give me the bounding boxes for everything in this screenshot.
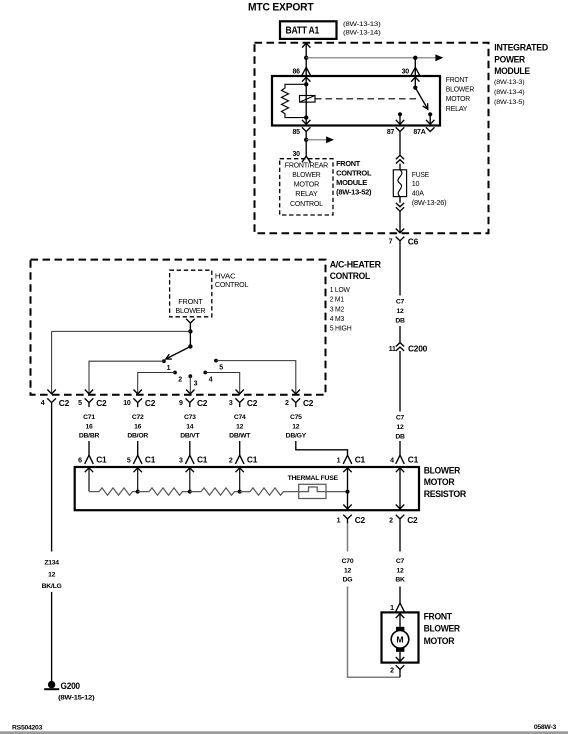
svg-text:5: 5 (78, 400, 82, 407)
svg-text:7: 7 (389, 239, 393, 246)
switch arm relay (415, 88, 428, 110)
wire common to ground leg (horizontal) (52, 330, 191, 332)
arrow entry pin1 (343, 468, 351, 472)
svg-text:12: 12 (344, 567, 352, 574)
dashed actuation link (315, 98, 419, 100)
wire switch common (189, 328, 191, 347)
svg-text:MTC EXPORT: MTC EXPORT (248, 2, 314, 14)
wire position 4 to 3 C2 (205, 373, 239, 394)
pin 4 C2 connector (41, 398, 70, 408)
ground G200 (44, 681, 59, 689)
svg-text:12: 12 (396, 424, 404, 431)
svg-text:C72: C72 (132, 414, 144, 421)
pin 5 C2 connector (78, 398, 107, 408)
svg-text:(8W-15-12): (8W-15-12) (58, 695, 94, 702)
pin 2 C2 connector (resistor out) (389, 515, 418, 525)
arrow motor pin 2 exit (396, 657, 404, 661)
svg-text:BK: BK (395, 577, 405, 584)
svg-text:C1: C1 (355, 455, 366, 465)
svg-text:MODULE: MODULE (494, 66, 530, 76)
svg-text:C70: C70 (342, 558, 354, 565)
arrow entry (134, 468, 142, 472)
resistor relay suppression (282, 84, 307, 117)
svg-text:12: 12 (396, 567, 404, 574)
relay U1 FRONT BLOWER MOTOR RELAY box (272, 76, 440, 126)
wire to pin 4 C1 (399, 441, 401, 455)
svg-text:DG: DG (343, 577, 353, 584)
arrow entry (186, 468, 194, 472)
svg-text:CONTROL: CONTROL (215, 282, 249, 289)
wire pin 4 C1 through resistor (399, 467, 401, 511)
arrow ground leg exits box (47, 390, 55, 394)
svg-text:(8W-13-5): (8W-13-5) (494, 99, 524, 106)
pin 10 C2 connector (123, 398, 155, 408)
pin 2 C2 connector (285, 398, 314, 408)
svg-text:FRONT: FRONT (424, 612, 453, 622)
svg-text:M: M (396, 635, 403, 645)
wire contact 87A to pin (429, 114, 431, 125)
svg-text:30: 30 (402, 68, 410, 75)
wire C70 upper segment (grey) (347, 523, 349, 551)
wire label C70 12 DG (342, 558, 354, 584)
svg-text:C2: C2 (145, 398, 156, 408)
arrow position 1 wire exits (85, 390, 93, 394)
wire contact 87 to pin (399, 114, 401, 125)
pin 3 C1 connector (179, 455, 208, 465)
battery feed BATT A1 (280, 21, 337, 39)
svg-text:2: 2 (389, 517, 393, 524)
svg-text:CONTROL: CONTROL (336, 171, 372, 178)
svg-text:POWER: POWER (494, 54, 525, 64)
svg-text:MOTOR: MOTOR (424, 636, 456, 646)
svg-text:C75: C75 (290, 414, 302, 421)
svg-text:2: 2 (285, 400, 289, 407)
svg-text:30: 30 (293, 151, 301, 158)
node position 5 (214, 359, 218, 363)
svg-text:(8W-13-26): (8W-13-26) (412, 198, 447, 207)
relay coil symbol (300, 96, 316, 103)
svg-text:CONTROL: CONTROL (290, 201, 323, 208)
arrow position 5 wire exits (292, 390, 300, 394)
svg-text:FRONT: FRONT (178, 299, 203, 306)
wire below fuse (399, 197, 401, 203)
motor brush bottom (396, 648, 404, 652)
svg-text:BATT A1: BATT A1 (286, 25, 320, 36)
svg-text:C2: C2 (303, 398, 314, 408)
svg-text:1: 1 (390, 605, 394, 612)
svg-text:85: 85 (293, 129, 301, 136)
connector double chevron below fuse (396, 203, 404, 211)
arrow pin 87 exit (396, 120, 404, 124)
node bus to relay pin 30 (413, 56, 417, 60)
wire pin 87 to fuse (399, 136, 401, 155)
svg-text:BLOWER: BLOWER (446, 85, 474, 94)
svg-text:5: 5 (127, 457, 131, 464)
wire pin 85 to front control module (305, 136, 307, 157)
resistor R4 (240, 488, 299, 495)
front control module dashed box (280, 159, 333, 215)
node R1-R2 (136, 490, 140, 494)
svg-text:C71: C71 (83, 414, 95, 421)
arrow pin 85 exit (302, 120, 310, 124)
svg-text:FRONT/REAR: FRONT/REAR (285, 163, 328, 170)
pin 30 chevron (411, 67, 420, 75)
wire position 1 to 5 C2 (89, 361, 164, 393)
node position 2 (173, 371, 177, 375)
svg-text:G200: G200 (61, 681, 81, 691)
arrow bus continues right (435, 54, 443, 61)
svg-text:FRONT: FRONT (446, 75, 469, 84)
arrow exit pin1 (343, 505, 351, 509)
svg-text:12: 12 (236, 423, 244, 430)
node switch common junction (188, 329, 192, 333)
wire label C7 12 DB upper (395, 299, 405, 325)
wire down to relay pin 30 (414, 58, 416, 76)
wire C70 lower segment to motor pin 2 (grey) (348, 587, 401, 678)
node position 4 (203, 371, 207, 375)
wire into fuse (399, 164, 401, 170)
svg-text:C7: C7 (396, 415, 405, 422)
svg-text:C1: C1 (247, 455, 258, 465)
wire position 5 to 2 C2 (216, 361, 296, 394)
pin 4 C1 chevron (396, 455, 405, 464)
a/c-heater control label (330, 260, 382, 281)
svg-text:DB/VT: DB/VT (180, 433, 200, 440)
node switch pivot (413, 86, 417, 90)
wire label C7 12 DB lower (395, 415, 405, 441)
svg-text:2: 2 (229, 457, 233, 464)
pin 87A chevron (stub) (426, 127, 435, 131)
pin 85 chevron (302, 127, 311, 136)
node contact 87A (428, 112, 432, 116)
arrow exit pin4 (396, 505, 404, 509)
svg-text:(8W-13-14): (8W-13-14) (343, 30, 381, 37)
svg-text:10: 10 (123, 400, 131, 407)
pin 87 chevron (396, 127, 405, 136)
pin 3 C2 connector (229, 398, 258, 408)
svg-text:14: 14 (186, 423, 194, 430)
svg-text:1: 1 (167, 365, 171, 372)
fuse element curve (398, 170, 402, 197)
wire label C71 16 DB/BR (79, 414, 100, 439)
svg-text:HVAC: HVAC (215, 274, 236, 281)
wire motor internal top (399, 612, 401, 626)
svg-text:C2: C2 (247, 398, 258, 408)
svg-text:87: 87 (387, 129, 395, 136)
wire fuse to pin 1 (326, 491, 348, 493)
arrow entry (85, 468, 93, 472)
svg-text:C2: C2 (407, 515, 418, 525)
svg-text:C1: C1 (96, 455, 107, 465)
svg-text:3: 3 (194, 380, 198, 387)
wire (88, 441, 90, 455)
svg-text:C200: C200 (408, 343, 428, 353)
svg-text:RELAY: RELAY (295, 191, 318, 198)
switch common chevron (186, 319, 195, 328)
svg-text:C74: C74 (234, 414, 246, 421)
svg-text:86: 86 (293, 68, 301, 75)
svg-text:C2: C2 (96, 398, 107, 408)
connector C6 chevron (396, 237, 405, 246)
motor pin 1 chevron (396, 603, 405, 612)
svg-text:(8W-13-13): (8W-13-13) (343, 21, 381, 28)
resistor R2 (138, 488, 190, 495)
node position 1 (162, 359, 166, 363)
svg-text:BLOWER: BLOWER (424, 466, 461, 476)
integrated power module boundary (255, 43, 489, 234)
arrow pin 86 entry (302, 77, 310, 81)
pin 30 FCM chevron (302, 156, 311, 162)
svg-text:CONTROL: CONTROL (330, 271, 371, 281)
front/rear blower motor relay control label (285, 163, 328, 208)
wire label C75 12 DB/GY (286, 414, 307, 439)
svg-text:12: 12 (48, 571, 56, 578)
svg-text:5: 5 (219, 364, 223, 371)
svg-text:5 HIGH: 5 HIGH (330, 326, 352, 333)
wire C6 down (C7 12 DB) (399, 245, 401, 295)
wire to C200 (399, 326, 401, 343)
wire (137, 441, 139, 455)
svg-text:(8W-13-3): (8W-13-3) (494, 79, 524, 86)
svg-text:RELAY: RELAY (446, 104, 468, 113)
wire (239, 441, 241, 455)
pin 1 C1 connector (337, 455, 366, 465)
wire C7 BK to motor pin 1 (399, 587, 401, 604)
svg-text:FRONT: FRONT (336, 161, 361, 168)
svg-text:C2: C2 (197, 398, 208, 408)
wire label C72 16 DB/OR (127, 414, 148, 439)
value label (8W-13-13) (8W-13-14) (343, 21, 381, 37)
wire resistor feed (88, 467, 90, 491)
switch position legend (330, 287, 352, 333)
svg-text:C2: C2 (355, 515, 366, 525)
svg-text:4: 4 (390, 457, 394, 464)
svg-text:(8W-13-4): (8W-13-4) (494, 89, 524, 96)
svg-text:MOTOR: MOTOR (446, 94, 470, 103)
svg-text:2: 2 (390, 667, 394, 674)
wire label C74 12 DB/WT (229, 414, 251, 439)
motor pin 2 chevron (396, 665, 405, 674)
wire ground leg down (51, 331, 53, 393)
node R2-R3 (188, 490, 192, 494)
arrow into battery feed (302, 43, 310, 47)
svg-text:C7: C7 (396, 299, 405, 306)
svg-text:16: 16 (134, 423, 142, 430)
wire resistor feed (239, 467, 241, 491)
resistor R1 (89, 488, 138, 495)
svg-text:RESISTOR: RESISTOR (424, 489, 467, 499)
arrow entry (236, 468, 244, 472)
svg-text:3: 3 (229, 400, 233, 407)
svg-text:DB/OR: DB/OR (127, 433, 148, 440)
front blower motor label (424, 612, 461, 646)
svg-text:DB/WT: DB/WT (229, 433, 251, 440)
pin 9 C2 connector (179, 398, 208, 408)
svg-text:C6: C6 (408, 236, 419, 246)
svg-text:87A: 87A (413, 129, 425, 136)
svg-text:DB: DB (395, 317, 405, 324)
wire motor internal bottom (399, 652, 401, 663)
svg-text:C1: C1 (145, 455, 156, 465)
blower motor resistor label (424, 466, 467, 499)
svg-text:A/C-HEATER: A/C-HEATER (330, 260, 382, 270)
pin 5 C1 connector (127, 455, 156, 465)
svg-text:C73: C73 (184, 414, 196, 421)
svg-text:RS504203: RS504203 (12, 725, 43, 732)
wire Z134 lower segment to ground (51, 592, 53, 682)
relay label (446, 75, 474, 113)
wire label C73 14 DB/VT (180, 414, 200, 439)
wire pin 1 C1 through resistor (347, 467, 349, 511)
connector double chevron above fuse (396, 155, 404, 163)
svg-text:11: 11 (389, 346, 396, 353)
arrow exit IPM (396, 229, 404, 233)
svg-text:BLOWER: BLOWER (292, 172, 320, 179)
front blower switch label (175, 299, 205, 315)
svg-text:FUSE: FUSE (412, 170, 430, 179)
svg-text:6: 6 (78, 457, 82, 464)
front control module label (336, 161, 372, 196)
node switch pivot (188, 344, 192, 348)
svg-text:4: 4 (209, 377, 213, 384)
svg-text:1: 1 (337, 517, 341, 524)
wire branch arrow right (306, 139, 327, 141)
arrow motor pin 1 entry (396, 614, 404, 618)
wire position 2 to 10 C2 (138, 373, 175, 394)
arrow branch continues (326, 136, 334, 143)
svg-text:BLOWER: BLOWER (175, 308, 205, 315)
arrow pin 30 entry (411, 77, 419, 81)
svg-text:THERMAL FUSE: THERMAL FUSE (288, 475, 339, 482)
hvac control dashed box (170, 270, 212, 317)
svg-text:DB/GY: DB/GY (286, 433, 307, 440)
svg-text:10: 10 (412, 179, 420, 188)
svg-text:9: 9 (179, 400, 183, 407)
motor brush top (396, 627, 404, 631)
svg-text:INTEGRATED: INTEGRATED (494, 43, 548, 53)
svg-text:4 M3: 4 M3 (330, 316, 345, 323)
blower motor resistor box (75, 467, 419, 510)
integrated power module label (494, 43, 549, 106)
svg-text:40A: 40A (412, 188, 424, 197)
arrow position 4 wire exits (236, 390, 244, 394)
arrow position 3 wire exits (186, 390, 194, 394)
svg-text:C1: C1 (408, 455, 419, 465)
svg-text:2: 2 (178, 377, 182, 384)
svg-text:2 M1: 2 M1 (330, 297, 344, 304)
svg-text:1 LOW: 1 LOW (330, 287, 351, 294)
svg-text:12: 12 (396, 308, 404, 315)
node coil bottom (304, 115, 308, 119)
svg-text:Z134: Z134 (44, 560, 59, 567)
svg-text:C1: C1 (197, 455, 208, 465)
svg-text:MODULE: MODULE (336, 180, 368, 187)
resistor R3 (190, 488, 240, 495)
node position 3 (188, 374, 192, 378)
svg-text:DB: DB (395, 433, 405, 440)
pin 86 chevron (302, 67, 311, 75)
wire resistor feed (189, 467, 191, 491)
node battery bus junction (304, 56, 308, 60)
wire (189, 441, 191, 455)
wire BATT A1 down to relay pin 86 (305, 43, 307, 76)
connector C200 double chevron (396, 343, 404, 351)
node relay control branch (304, 138, 308, 142)
svg-text:C7: C7 (396, 558, 405, 565)
wire Z134 upper segment (51, 407, 53, 551)
switch arm blower speed (166, 347, 191, 360)
bottom rule (0, 731, 568, 734)
svg-text:C2: C2 (59, 398, 70, 408)
node R3-R4 (238, 490, 242, 494)
wire motor pin 2 stub (399, 674, 401, 677)
a/c-heater control boundary (31, 260, 326, 395)
svg-text:16: 16 (85, 423, 93, 430)
fuse F10 box (393, 170, 406, 197)
node contact 87 (398, 112, 402, 116)
thermal fuse symbol (299, 484, 326, 498)
svg-text:BLOWER: BLOWER (424, 624, 461, 634)
svg-text:3: 3 (179, 457, 183, 464)
wire C7 BK upper segment (399, 523, 401, 551)
svg-text:12: 12 (292, 423, 300, 430)
wire C200 down (399, 351, 401, 412)
wire label C7 12 BK (395, 558, 405, 584)
wire resistor feed (137, 467, 139, 491)
fuse label FUSE 10 40A (412, 170, 447, 207)
pin 2 C1 connector (229, 455, 258, 465)
wire relay coil vertical 86 to 85 (305, 76, 307, 126)
arrow pin 87A exit (426, 120, 434, 124)
svg-text:(8W-13-52): (8W-13-52) (336, 189, 371, 196)
svg-text:3 M2: 3 M2 (330, 306, 345, 313)
wire relay pin 30 to switch pivot (414, 76, 416, 88)
svg-text:058W-3: 058W-3 (534, 724, 557, 731)
arrow position 2 wire exits (134, 390, 142, 394)
front blower motor box (382, 612, 419, 662)
wire position 3 to 9 C2 (189, 376, 191, 393)
wire fuse to C6 (399, 211, 401, 233)
hvac control label (215, 274, 249, 289)
wire DB/GY reroute to pin 1 C1 (296, 441, 348, 455)
svg-text:DB/BR: DB/BR (79, 433, 100, 440)
svg-text:MOTOR: MOTOR (294, 181, 320, 188)
svg-text:4: 4 (41, 400, 45, 407)
pin 1 C2 connector (resistor out) (337, 515, 366, 525)
wire label Z134 12 BK/LG (42, 560, 62, 591)
wire bus to fuse branch (horizontal) (306, 57, 436, 59)
node coil top (304, 82, 308, 86)
svg-text:MOTOR: MOTOR (424, 477, 456, 487)
svg-text:BK/LG: BK/LG (42, 583, 62, 590)
arrow entry pin4 (396, 468, 404, 472)
pin 6 C1 connector (78, 455, 107, 465)
svg-text:1: 1 (337, 457, 341, 464)
node chain to pin 1 (346, 490, 350, 494)
motor M1 symbol (391, 631, 409, 649)
